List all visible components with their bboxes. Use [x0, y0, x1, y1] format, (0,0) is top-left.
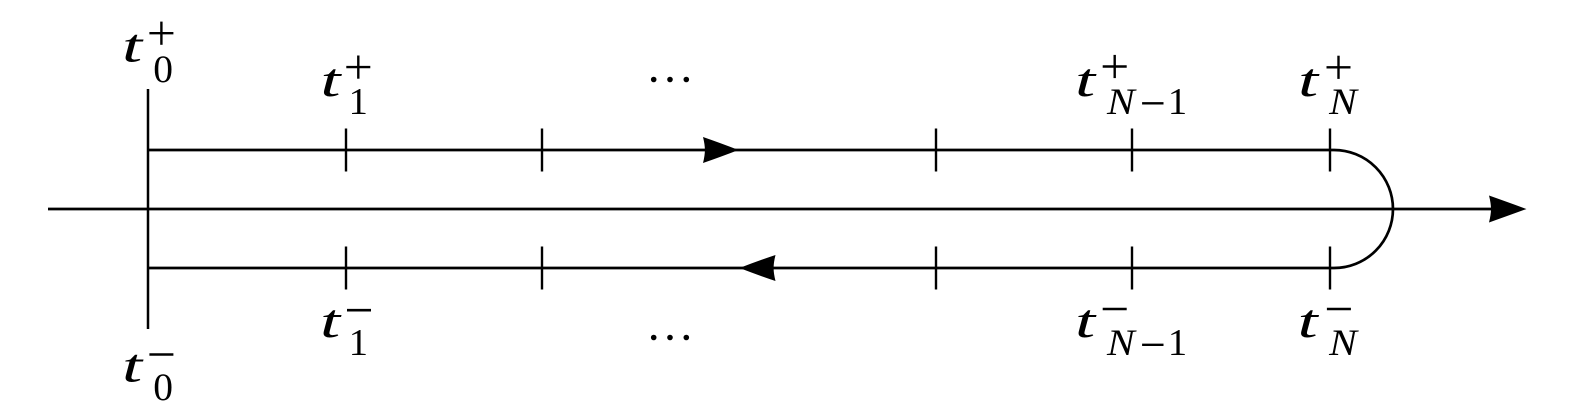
- tick t_{N-2} upper: [935, 129, 937, 172]
- tick t_{N-2} lower: [935, 247, 937, 290]
- label t_N^-: [1298, 295, 1359, 364]
- turning arc at t_N: [1334, 150, 1393, 268]
- lower ellipsis: [651, 335, 689, 341]
- label t_N^+: [1298, 54, 1359, 123]
- tick t_N lower: [1329, 247, 1331, 290]
- main time axis: [48, 208, 1505, 211]
- tick t2 lower: [541, 247, 543, 290]
- tick t1 lower: [345, 247, 347, 290]
- lower branch arrowhead (leftward): [740, 255, 776, 281]
- lower contour branch: [148, 267, 1334, 270]
- tick t1 upper: [345, 129, 347, 172]
- label t_1^-: [320, 295, 371, 364]
- tick t_{N-1} lower: [1131, 247, 1133, 290]
- label t_{N-1}^+: [1075, 54, 1187, 123]
- label t_1^+: [321, 54, 371, 123]
- upper branch arrowhead (rightward): [703, 137, 739, 163]
- tick t2 upper: [541, 129, 543, 172]
- label t_0^+: [122, 19, 173, 91]
- tick t_N upper: [1329, 129, 1331, 172]
- label t_0^-: [122, 339, 173, 409]
- upper contour branch: [148, 149, 1334, 152]
- tick t_{N-1} upper: [1131, 129, 1133, 172]
- main axis arrowhead: [1489, 196, 1527, 223]
- vertical line through t0: [147, 89, 150, 329]
- upper ellipsis: [651, 77, 689, 83]
- label t_{N-1}^-: [1075, 295, 1187, 364]
